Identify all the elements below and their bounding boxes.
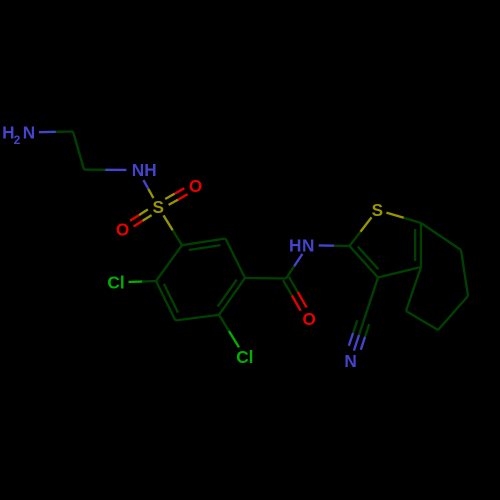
svg-text:S: S bbox=[152, 197, 163, 217]
svg-text:S: S bbox=[372, 200, 383, 220]
svg-text:N: N bbox=[302, 235, 314, 255]
svg-text:H: H bbox=[289, 235, 301, 255]
svg-text:O: O bbox=[303, 309, 316, 329]
svg-text:H: H bbox=[144, 160, 156, 180]
svg-text:Cl: Cl bbox=[236, 347, 253, 367]
svg-text:2: 2 bbox=[14, 133, 21, 147]
svg-text:N: N bbox=[344, 351, 356, 371]
svg-text:O: O bbox=[189, 176, 202, 196]
svg-text:O: O bbox=[116, 220, 129, 240]
svg-text:N: N bbox=[23, 123, 35, 143]
svg-text:Cl: Cl bbox=[107, 273, 124, 293]
svg-text:N: N bbox=[132, 160, 144, 180]
svg-text:H: H bbox=[2, 123, 14, 143]
